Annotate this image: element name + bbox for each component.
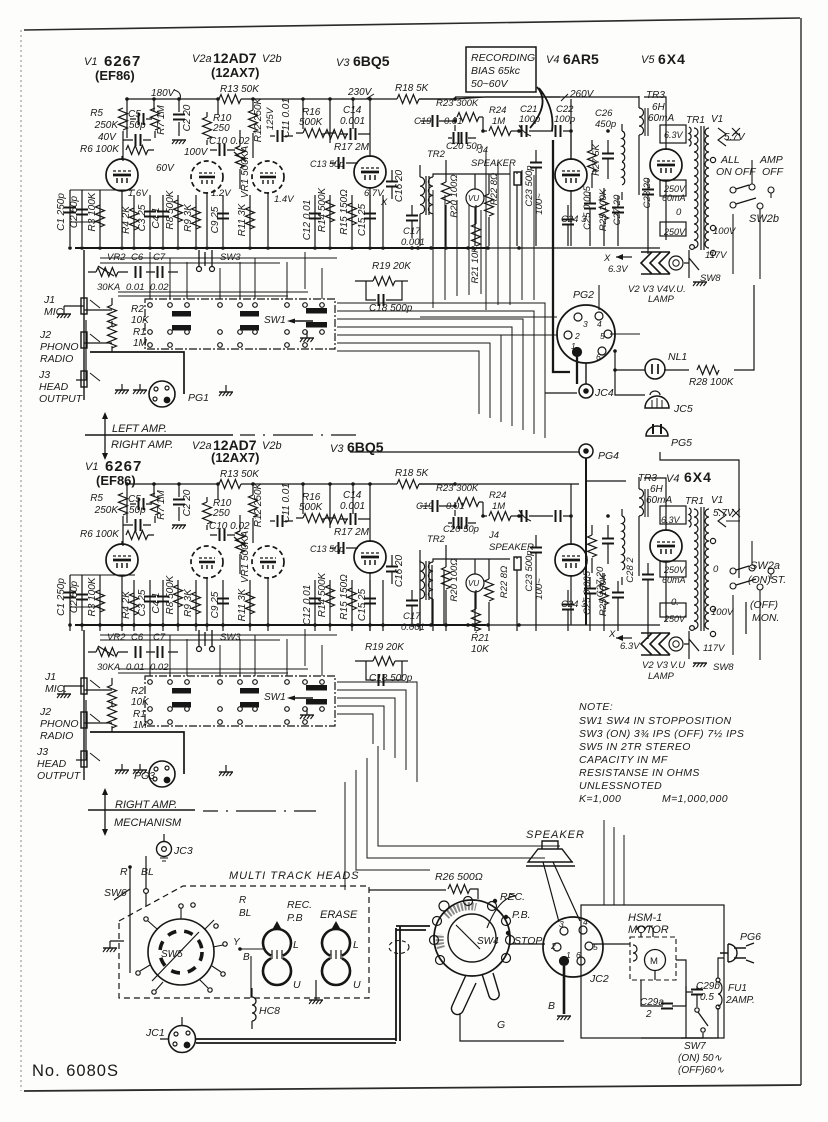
svg-text:(EF86): (EF86) — [95, 68, 135, 83]
svg-text:V2a: V2a — [192, 53, 212, 65]
svg-text:RADIO: RADIO — [40, 353, 73, 365]
svg-text:6.3V: 6.3V — [608, 264, 629, 275]
svg-text:6BQ5: 6BQ5 — [353, 53, 390, 69]
svg-text:STOP: STOP — [514, 935, 542, 947]
svg-text:1: 1 — [571, 341, 576, 351]
svg-text:180V: 180V — [151, 88, 176, 99]
svg-text:(ON)ST.: (ON)ST. — [748, 574, 786, 586]
svg-text:30KA: 30KA — [97, 662, 120, 673]
svg-text:X: X — [603, 253, 611, 264]
svg-text:100V: 100V — [184, 147, 209, 158]
svg-text:1: 1 — [566, 950, 571, 960]
svg-text:0.01: 0.01 — [126, 282, 145, 293]
svg-text:(OFF): (OFF) — [750, 599, 778, 611]
svg-text:0.001: 0.001 — [401, 622, 425, 633]
svg-text:AMP: AMP — [759, 154, 783, 166]
svg-text:R22 8Ω: R22 8Ω — [499, 566, 510, 599]
svg-text:No. 6080S: No. 6080S — [32, 1062, 119, 1080]
svg-text:SW4: SW4 — [477, 936, 499, 947]
svg-text:U: U — [353, 979, 361, 991]
svg-text:SW1: SW1 — [264, 315, 286, 326]
svg-text:J3: J3 — [38, 369, 50, 381]
svg-text:LAMP: LAMP — [648, 671, 675, 682]
svg-text:JC2: JC2 — [589, 973, 609, 985]
svg-text:125V: 125V — [265, 106, 276, 130]
svg-text:10K: 10K — [131, 315, 150, 326]
svg-text:P.B: P.B — [287, 912, 303, 924]
svg-text:JC5: JC5 — [673, 403, 693, 415]
svg-text:SW1: SW1 — [264, 692, 286, 703]
svg-text:100p: 100p — [554, 114, 575, 125]
svg-text:HEAD: HEAD — [39, 381, 69, 393]
svg-text:JC1: JC1 — [145, 1027, 165, 1039]
svg-text:RECORDING: RECORDING — [471, 52, 535, 64]
svg-text:100V: 100V — [711, 607, 735, 618]
svg-text:RADIO: RADIO — [40, 730, 73, 742]
svg-text:260V: 260V — [569, 89, 595, 100]
svg-text:V2b: V2b — [262, 440, 282, 452]
svg-text:SW2b: SW2b — [749, 213, 779, 225]
svg-text:VR2: VR2 — [107, 252, 126, 263]
svg-text:TR3: TR3 — [638, 473, 657, 484]
svg-text:C7: C7 — [153, 252, 166, 263]
svg-text:SW7: SW7 — [684, 1041, 706, 1052]
svg-text:R23 300K: R23 300K — [436, 483, 479, 494]
svg-text:C17: C17 — [403, 226, 421, 237]
svg-text:60mA: 60mA — [662, 575, 686, 585]
svg-text:V.U: V.U — [670, 660, 685, 671]
svg-text:R26 500Ω: R26 500Ω — [435, 871, 483, 883]
svg-text:1M: 1M — [133, 338, 148, 349]
svg-text:C26: C26 — [595, 108, 613, 119]
svg-text:1.2V: 1.2V — [211, 188, 232, 199]
svg-text:6H: 6H — [652, 102, 666, 113]
svg-text:3: 3 — [583, 319, 588, 329]
svg-text:C19: C19 — [416, 501, 434, 512]
svg-text:6BQ5: 6BQ5 — [347, 439, 384, 455]
svg-text:SPEAKER: SPEAKER — [526, 829, 585, 841]
svg-text:(ON) 50∿: (ON) 50∿ — [678, 1053, 723, 1064]
svg-text:V1: V1 — [85, 461, 98, 473]
svg-text:C7: C7 — [153, 632, 166, 643]
svg-text:FU1: FU1 — [728, 983, 747, 994]
svg-text:CAPACITY IN MF: CAPACITY IN MF — [579, 754, 668, 766]
svg-text:REC.: REC. — [287, 899, 312, 911]
svg-text:J3: J3 — [36, 746, 48, 758]
svg-text:60mA: 60mA — [648, 113, 674, 124]
svg-text:SW5: SW5 — [161, 949, 183, 960]
svg-text:50~60V: 50~60V — [471, 78, 508, 90]
svg-text:6X4: 6X4 — [684, 469, 712, 485]
svg-text:2: 2 — [550, 941, 556, 951]
svg-text:2: 2 — [574, 331, 580, 341]
svg-text:100~: 100~ — [534, 578, 545, 600]
svg-text:R23 300K: R23 300K — [436, 98, 479, 109]
svg-text:OFF: OFF — [762, 166, 784, 178]
svg-text:U: U — [293, 979, 301, 991]
svg-text:B: B — [243, 952, 250, 963]
svg-text:C28 2: C28 2 — [625, 557, 636, 583]
svg-text:RIGHT AMP.: RIGHT AMP. — [115, 799, 177, 811]
svg-text:1.4V: 1.4V — [274, 194, 295, 205]
svg-text:0.001: 0.001 — [401, 237, 425, 248]
svg-text:J4: J4 — [488, 530, 499, 541]
svg-text:REC.: REC. — [500, 891, 525, 903]
svg-text:OUTPUT: OUTPUT — [37, 770, 82, 782]
svg-text:PG4: PG4 — [598, 450, 619, 462]
svg-text:100p: 100p — [519, 114, 540, 125]
svg-text:PHONO: PHONO — [40, 718, 79, 730]
svg-text:R20 100Ω: R20 100Ω — [449, 174, 460, 217]
svg-text:C6: C6 — [131, 632, 144, 643]
svg-text:117V: 117V — [703, 643, 726, 654]
svg-text:12AD7: 12AD7 — [213, 50, 257, 66]
svg-text:TR2: TR2 — [427, 534, 446, 545]
svg-text:R28 100K: R28 100K — [689, 377, 735, 388]
svg-text:R27 5K: R27 5K — [591, 143, 602, 175]
svg-text:C29b: C29b — [696, 981, 720, 992]
svg-text:PHONO: PHONO — [40, 341, 79, 353]
svg-text:R2: R2 — [131, 686, 144, 697]
svg-text:J1: J1 — [44, 671, 56, 683]
svg-text:V1: V1 — [711, 114, 723, 125]
svg-text:M: M — [650, 956, 658, 967]
svg-text:5.7V: 5.7V — [724, 132, 746, 143]
svg-text:C17: C17 — [403, 611, 421, 622]
svg-text:V2 V3: V2 V3 — [642, 660, 669, 671]
svg-text:60mA: 60mA — [646, 495, 672, 506]
svg-text:(EF86): (EF86) — [96, 473, 136, 488]
svg-text:TR2: TR2 — [427, 149, 446, 160]
svg-text:LEFT AMP.: LEFT AMP. — [112, 423, 167, 435]
svg-text:2AMP.: 2AMP. — [725, 995, 755, 1006]
svg-text:6: 6 — [576, 950, 581, 960]
svg-text:R20 100Ω: R20 100Ω — [449, 558, 460, 601]
svg-text:JC4: JC4 — [594, 387, 614, 399]
svg-text:LAMP: LAMP — [648, 294, 675, 305]
svg-text:R: R — [239, 895, 246, 906]
svg-text:P.B.: P.B. — [512, 909, 531, 921]
svg-text:V3: V3 — [336, 57, 350, 69]
svg-text:RIGHT AMP.: RIGHT AMP. — [111, 439, 173, 451]
svg-text:0.: 0. — [671, 597, 679, 608]
svg-text:SW1 SW4 IN STOPPOSITION: SW1 SW4 IN STOPPOSITION — [579, 715, 732, 727]
svg-text:6H: 6H — [650, 484, 664, 495]
svg-text:250V: 250V — [663, 227, 686, 237]
svg-text:5.7V: 5.7V — [713, 508, 735, 519]
svg-text:6.3V: 6.3V — [620, 641, 641, 652]
svg-text:0.02: 0.02 — [150, 282, 169, 293]
svg-text:SW2a: SW2a — [750, 560, 780, 572]
svg-text:C25 0.005: C25 0.005 — [582, 185, 593, 230]
svg-text:0.01: 0.01 — [446, 501, 465, 512]
svg-text:C29a: C29a — [640, 997, 664, 1008]
svg-text:ON OFF: ON OFF — [716, 166, 756, 178]
svg-text:C18 500p: C18 500p — [369, 303, 413, 314]
svg-text:6AR5: 6AR5 — [563, 51, 599, 67]
svg-text:C25 0.005: C25 0.005 — [582, 570, 593, 615]
svg-text:R24: R24 — [489, 105, 506, 116]
svg-text:PG5: PG5 — [671, 437, 692, 449]
svg-text:NL1: NL1 — [668, 351, 687, 363]
svg-text:0.5: 0.5 — [700, 992, 714, 1003]
svg-text:PG1: PG1 — [188, 392, 209, 404]
svg-text:V2b: V2b — [262, 53, 282, 65]
svg-text:0.01: 0.01 — [126, 662, 145, 673]
svg-text:BL: BL — [141, 866, 154, 878]
svg-text:R19 20K: R19 20K — [365, 642, 405, 653]
svg-text:BL: BL — [239, 908, 251, 919]
svg-text:R25 100K: R25 100K — [598, 573, 609, 616]
svg-text:TR1: TR1 — [686, 115, 705, 126]
svg-text:J2: J2 — [39, 706, 51, 718]
svg-text:117V: 117V — [705, 250, 728, 261]
svg-text:SW6: SW6 — [104, 887, 127, 899]
svg-text:MIC.: MIC. — [44, 306, 66, 318]
svg-text:V1: V1 — [84, 56, 97, 68]
svg-text:0: 0 — [676, 207, 682, 218]
svg-text:40V: 40V — [98, 132, 117, 143]
svg-text:JC3: JC3 — [173, 845, 193, 857]
svg-text:SPEAKER: SPEAKER — [471, 158, 516, 169]
svg-text:BIAS 65kc: BIAS 65kc — [471, 65, 521, 77]
svg-text:2: 2 — [645, 1009, 652, 1020]
svg-text:SW3: SW3 — [220, 632, 241, 643]
svg-text:SW8: SW8 — [700, 273, 721, 284]
svg-text:6: 6 — [596, 352, 601, 362]
svg-text:V2a: V2a — [192, 440, 212, 452]
svg-text:G: G — [497, 1019, 505, 1031]
svg-text:V4: V4 — [546, 54, 559, 66]
svg-text:PG6: PG6 — [740, 931, 761, 943]
svg-text:ERASE: ERASE — [320, 909, 358, 921]
svg-text:HSM-1: HSM-1 — [628, 912, 662, 924]
svg-text:V5: V5 — [641, 54, 655, 66]
svg-text:30KA: 30KA — [97, 282, 120, 293]
svg-text:R19 20K: R19 20K — [372, 261, 412, 272]
svg-text:UNLESSNOTED: UNLESSNOTED — [579, 780, 662, 792]
svg-text:MOTOR: MOTOR — [628, 924, 669, 936]
svg-text:V1: V1 — [711, 495, 723, 506]
svg-text:C6: C6 — [131, 252, 144, 263]
svg-text:OUTPUT: OUTPUT — [39, 393, 84, 405]
svg-text:VR2: VR2 — [107, 632, 126, 643]
svg-text:5: 5 — [600, 331, 605, 341]
svg-text:MON.: MON. — [752, 612, 779, 624]
svg-text:M=1,000,000: M=1,000,000 — [662, 793, 728, 805]
svg-text:60V: 60V — [156, 163, 175, 174]
svg-text:100V: 100V — [713, 226, 737, 237]
svg-text:6.3V: 6.3V — [664, 130, 684, 140]
svg-text:MIC.: MIC. — [45, 683, 67, 695]
svg-text:C18 500p: C18 500p — [369, 673, 413, 684]
svg-text:HC8: HC8 — [259, 1005, 280, 1017]
svg-text:R21: R21 — [471, 633, 489, 644]
svg-text:SW8: SW8 — [713, 662, 734, 673]
svg-text:SW3: SW3 — [220, 252, 241, 263]
svg-text:0.01: 0.01 — [444, 116, 463, 127]
svg-text:MULTI TRACK HEADS: MULTI TRACK HEADS — [229, 870, 359, 882]
svg-text:R1: R1 — [133, 327, 146, 338]
svg-text:R: R — [120, 866, 128, 878]
svg-text:3: 3 — [559, 919, 564, 929]
svg-text:0.02: 0.02 — [150, 662, 169, 673]
svg-text:C28 20: C28 20 — [642, 177, 653, 208]
svg-text:(12AX7): (12AX7) — [211, 65, 259, 80]
svg-text:J4: J4 — [477, 145, 488, 156]
svg-text:K=1,000: K=1,000 — [579, 793, 621, 805]
svg-text:R1: R1 — [133, 709, 146, 720]
svg-text:TR3: TR3 — [646, 90, 665, 101]
svg-text:R24: R24 — [489, 490, 506, 501]
svg-text:450p: 450p — [595, 119, 616, 130]
svg-text:NOTE:: NOTE: — [579, 701, 613, 713]
svg-text:5: 5 — [593, 942, 598, 952]
svg-text:R22 8Ω: R22 8Ω — [489, 173, 500, 206]
svg-text:C27 20: C27 20 — [612, 194, 623, 225]
svg-text:PG2: PG2 — [573, 289, 594, 301]
svg-text:R21 10K: R21 10K — [470, 246, 481, 284]
svg-text:SW5 IN 2TR STEREO: SW5 IN 2TR STEREO — [579, 741, 691, 753]
svg-text:VU: VU — [468, 194, 479, 203]
svg-text:(12AX7): (12AX7) — [211, 450, 259, 465]
svg-text:RESISTANSE IN OHMS: RESISTANSE IN OHMS — [579, 767, 700, 779]
svg-text:V4: V4 — [666, 473, 679, 485]
svg-text:R25 100K: R25 100K — [598, 188, 609, 231]
svg-text:6.3V: 6.3V — [661, 515, 681, 525]
svg-text:1M: 1M — [133, 720, 148, 731]
svg-text:PG3: PG3 — [134, 770, 155, 782]
svg-text:TR1: TR1 — [685, 496, 704, 507]
svg-text:0: 0 — [713, 564, 719, 575]
svg-text:C20 50p: C20 50p — [443, 524, 479, 535]
svg-text:1M: 1M — [492, 501, 505, 512]
svg-text:60mA: 60mA — [662, 193, 686, 203]
svg-text:(OFF)60∿: (OFF)60∿ — [678, 1065, 725, 1076]
svg-text:X: X — [608, 629, 616, 640]
svg-text:C20 50p: C20 50p — [446, 141, 482, 152]
svg-text:B: B — [548, 1000, 555, 1012]
svg-text:4: 4 — [583, 917, 588, 927]
svg-text:MECHANISM: MECHANISM — [114, 817, 182, 829]
svg-text:SW3 (ON) 3¾ IPS (OFF) 7½ IPS: SW3 (ON) 3¾ IPS (OFF) 7½ IPS — [579, 728, 744, 740]
svg-text:1.6V: 1.6V — [128, 188, 149, 199]
svg-text:V3: V3 — [330, 443, 344, 455]
svg-text:1M: 1M — [492, 116, 505, 127]
svg-text:230V: 230V — [347, 87, 373, 98]
svg-text:10K: 10K — [131, 697, 150, 708]
svg-text:10K: 10K — [471, 644, 490, 655]
svg-text:VU: VU — [468, 579, 479, 588]
svg-text:250V: 250V — [663, 565, 686, 575]
svg-text:4: 4 — [597, 319, 602, 329]
svg-text:X: X — [380, 197, 388, 208]
svg-text:L: L — [293, 939, 299, 951]
svg-text:L: L — [353, 939, 359, 951]
svg-text:C19: C19 — [414, 116, 432, 127]
svg-text:6X4: 6X4 — [658, 51, 686, 67]
svg-text:HEAD: HEAD — [37, 758, 67, 770]
svg-text:J2: J2 — [39, 329, 51, 341]
svg-text:100~: 100~ — [534, 193, 545, 215]
svg-text:R2: R2 — [131, 304, 144, 315]
svg-text:ALL: ALL — [720, 154, 740, 166]
svg-text:250V: 250V — [663, 614, 686, 624]
svg-text:J1: J1 — [43, 294, 55, 306]
